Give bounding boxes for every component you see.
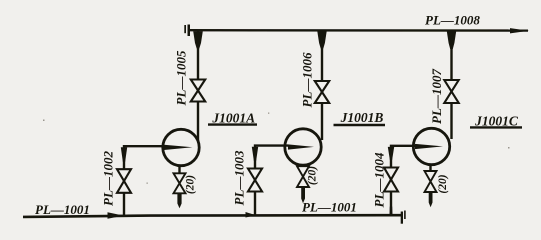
pipe header PL-1001 (bottom horizontal line) bbox=[23, 215, 402, 217]
drain pipe below pump J1001B bbox=[302, 165, 304, 168]
flow wedge on PL-1006 below header bbox=[317, 31, 326, 48]
pipe PL-1005 (discharge riser A) bbox=[197, 31, 199, 141]
pump J1001B (circle) bbox=[285, 129, 321, 165]
drain valve (20) below pump J1001C bbox=[425, 171, 437, 192]
svg-text:(20): (20) bbox=[307, 166, 319, 185]
svg-text:PL—1001: PL—1001 bbox=[302, 200, 357, 215]
drain tail arrow below valve (20) pump B bbox=[301, 187, 305, 203]
flow wedge on PL-1002 below elbow bbox=[121, 147, 127, 162]
svg-text:PL—1004: PL—1004 bbox=[372, 152, 387, 207]
flow wedge on PL-1004 at bottom header junction bbox=[390, 207, 393, 216]
drain valve (20) below pump J1001A bbox=[174, 173, 186, 193]
valve PL-1006 bbox=[315, 81, 329, 103]
valve PL-1005 bbox=[191, 80, 205, 102]
pump J1001C (circle) bbox=[413, 128, 449, 164]
svg-text:PL—1007: PL—1007 bbox=[429, 69, 444, 124]
flow wedge on PL-1005 below header bbox=[193, 31, 203, 48]
svg-text:(20): (20) bbox=[437, 174, 449, 193]
flow arrow inside pump J1001C bbox=[415, 144, 443, 149]
svg-text:PL—1008: PL—1008 bbox=[425, 13, 480, 28]
drain tail arrow below valve (20) pump C bbox=[429, 192, 433, 207]
pipe PL-1002 (suction riser A: from bottom header up and over to pump) bbox=[124, 146, 166, 215]
drain pipe below pump J1001C bbox=[429, 164, 431, 172]
svg-text:PL—1002: PL—1002 bbox=[101, 151, 116, 206]
flow wedge on PL-1004 below elbow bbox=[388, 147, 394, 160]
scan speckles bbox=[43, 113, 510, 184]
flow wedge on PL-1007 below header bbox=[447, 31, 456, 49]
drain pipe below pump J1001A bbox=[178, 165, 180, 174]
pump J1001A (circle) bbox=[163, 129, 199, 165]
svg-text:(20): (20) bbox=[185, 175, 197, 194]
blind cap at right end of header PL-1001 bbox=[401, 211, 406, 224]
label J1001C with underline bbox=[470, 113, 522, 128]
flow arrow on header PL-1001 at PL-1002 junction bbox=[108, 212, 124, 219]
valve PL-1004 bbox=[384, 168, 398, 192]
blind cap at left end of header PL-1008 bbox=[184, 25, 190, 37]
pipe PL-1007 (discharge riser C) bbox=[450, 31, 452, 139]
pipe PL-1003 (suction riser B) bbox=[255, 146, 288, 216]
svg-text:J1001B: J1001B bbox=[340, 110, 384, 125]
drain valve (20) below pump J1001B bbox=[297, 166, 309, 187]
flow arrow on header PL-1001 at PL-1003 junction bbox=[246, 212, 257, 218]
svg-text:PL—1006: PL—1006 bbox=[300, 52, 315, 107]
pipe PL-1006 (discharge riser B) bbox=[321, 31, 323, 140]
svg-text:PL—1003: PL—1003 bbox=[232, 150, 247, 205]
flow wedge on PL-1003 below elbow bbox=[252, 147, 258, 161]
flow arrow at right end of header PL-1008 bbox=[510, 28, 529, 33]
svg-text:PL—1005: PL—1005 bbox=[174, 50, 189, 105]
pipe PL-1004 (suction riser C) bbox=[391, 146, 416, 216]
valve PL-1007 bbox=[444, 80, 458, 103]
flow arrow inside pump J1001A bbox=[164, 145, 193, 150]
drain tail arrow below valve (20) pump A bbox=[177, 193, 181, 208]
svg-text:J1001C: J1001C bbox=[474, 113, 519, 128]
label J1001A with underline bbox=[208, 110, 257, 125]
pipe header PL-1008 (top horizontal line) bbox=[189, 29, 528, 32]
flow arrow inside pump J1001B bbox=[288, 144, 314, 149]
svg-text:PL—1001: PL—1001 bbox=[35, 202, 90, 217]
valve PL-1003 bbox=[248, 169, 262, 192]
valve PL-1002 bbox=[117, 169, 131, 193]
label J1001B with underline bbox=[334, 110, 386, 125]
svg-text:J1001A: J1001A bbox=[211, 110, 255, 125]
